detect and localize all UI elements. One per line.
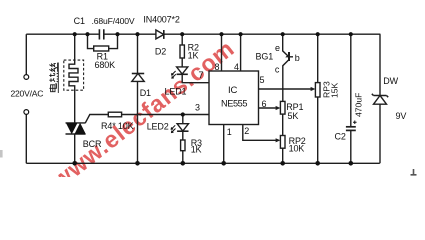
svg-text:1K: 1K (191, 145, 202, 155)
svg-text:e: e (275, 43, 280, 53)
svg-text:10K: 10K (289, 144, 305, 154)
svg-text:470uF: 470uF (354, 93, 364, 117)
svg-text:NE555: NE555 (221, 99, 247, 109)
svg-text:9V: 9V (396, 111, 407, 121)
svg-text:BCR: BCR (83, 139, 102, 149)
svg-text:D2: D2 (155, 47, 166, 57)
svg-text:DW: DW (383, 76, 398, 86)
svg-text:C2: C2 (335, 131, 346, 141)
svg-text:D1: D1 (140, 88, 151, 98)
svg-text:.68uF/400V: .68uF/400V (92, 16, 135, 26)
svg-text:LED1: LED1 (165, 87, 187, 97)
svg-text:15K: 15K (330, 82, 340, 98)
svg-text:6: 6 (262, 99, 267, 109)
svg-text:7: 7 (199, 70, 204, 80)
svg-text:3: 3 (195, 103, 200, 113)
svg-text:2: 2 (244, 126, 249, 136)
svg-text:c: c (275, 65, 280, 75)
svg-text:IC: IC (228, 85, 237, 96)
svg-text:R4* 10K: R4* 10K (101, 121, 134, 131)
svg-text:680K: 680K (95, 60, 116, 70)
svg-text:1K: 1K (188, 50, 199, 60)
svg-text:220V/AC: 220V/AC (11, 89, 44, 99)
svg-text:C1: C1 (74, 16, 85, 26)
svg-text:LED2: LED2 (147, 121, 169, 131)
svg-text:BG1: BG1 (256, 52, 274, 62)
svg-text:5K: 5K (288, 111, 299, 121)
svg-text:4: 4 (234, 62, 239, 72)
svg-text:IN4007*2: IN4007*2 (143, 15, 179, 25)
svg-text:8: 8 (215, 62, 220, 72)
svg-text:1: 1 (227, 127, 232, 137)
svg-text:b: b (295, 53, 300, 63)
svg-text:5: 5 (260, 75, 265, 85)
